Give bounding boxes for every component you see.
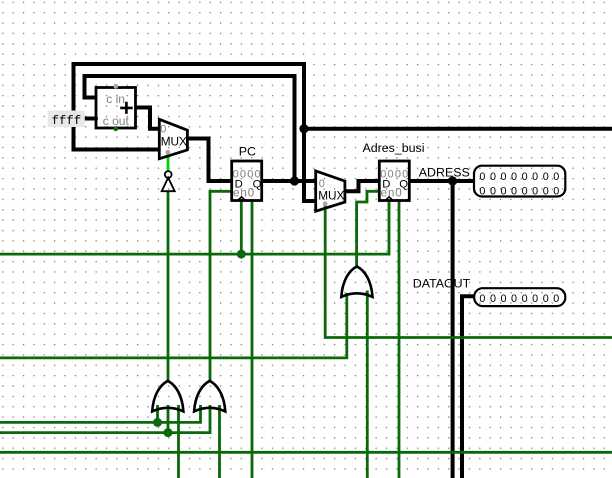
svg-text:en0: en0 [381,187,403,200]
OR gate G2 [194,381,225,412]
MUX M2 select pin [323,201,328,206]
wire bus to MUX M1 input 1 [72,148,160,152]
svg-text:MUX: MUX [318,188,344,202]
adder carry-out pin [113,126,118,131]
node junction on PC Q wire [290,176,299,185]
node junction on bus at y129 [299,124,308,133]
wire long horizontal y433 from left edge up to OR gate G2 middle input [0,405,210,433]
MUX M2 [316,171,345,211]
svg-text:en0: en0 [233,187,255,200]
wire bus register Adres_busi output Q to ADRESS probe [410,179,475,183]
wire bus ADRESS node down to bottom edge [451,181,455,478]
ADRESS probe [419,165,566,197]
wire NOT U1 output down to OR gate G1 output tip [167,191,170,382]
node junction PC clock on y254 wire [237,250,246,259]
wire bus register PC output Q to MUX M2 input 0 [263,179,316,183]
svg-text:Adres_busi: Adres_busi [363,141,425,155]
wire bus MUX M1 output to register PC input D [188,139,232,182]
svg-text:c in: c in [106,92,125,106]
wire bus adder output to MUX M1 input 0 [137,108,160,129]
wire bus east from node at y129 to right edge [304,127,612,131]
wire OR gate G3 right input down to bottom edge [366,291,369,478]
wire bus MUX M2 output to register Adres_busi input D [345,181,379,191]
constant ffff label box [48,111,85,129]
wire bright green MUX M1 select to NOT U1 [167,153,170,171]
node junction on y422 wire [153,418,162,427]
adder carry-in pin [113,84,118,89]
node junction on y433 wire [164,428,173,437]
wire long horizontal y452 across full width [0,451,612,454]
wire bus inner feedback loop to adder input A [85,76,295,181]
svg-text:ADRESS: ADRESS [419,165,470,179]
svg-text:DATAOUT: DATAOUT [413,277,471,291]
svg-text:ffff: ffff [52,114,82,128]
wire long horizontal y254 from left edge up to Adres_busi clock [0,202,389,255]
svg-text:c out: c out [103,114,130,128]
DATAOUT probe [413,277,566,307]
wire bus from bottom edge up to DATAOUT probe [462,296,475,478]
svg-text:00000000: 00000000 [479,171,563,183]
wire register Adres_busi second pin down to bottom edge [398,202,401,478]
wire bus outer feedback loop top [74,64,316,201]
register Adres_busi [363,141,425,201]
wire OR gate G3 output to register Adres_busi enable [357,191,379,266]
adder U2 [96,88,136,129]
wire register PC clock down to node on long wire [240,202,243,255]
MUX M1 select pin [165,150,170,155]
wire OR gate G1 middle input stub [167,405,170,433]
wire register PC enable to OR gate G2 output tip [210,191,231,381]
wire long horizontal y358 from left edge to OR gate G3 left input [0,293,347,358]
node junction at ADRESS [448,176,457,185]
wire OR gate G1 right input down to bottom edge [177,405,180,478]
svg-text:MUX: MUX [161,135,187,149]
wire OR gate G2 right input down to bottom edge [218,405,221,478]
svg-text:PC: PC [239,145,256,159]
wire long horizontal y422 from left edge up to OR gate G2 left input [0,405,201,422]
wire OR gate G1 left input stub [156,405,159,422]
OR gate G3 [341,266,372,297]
wire bus constant ffff to adder input B [84,117,96,121]
svg-text:0: 0 [160,123,166,135]
svg-text:00000000: 00000000 [479,185,563,197]
NOT U1 [162,171,175,191]
wire register PC second pin down to bottom edge [251,202,254,478]
OR gate G1 [152,381,183,412]
svg-text:00000000: 00000000 [479,293,563,305]
wire MUX M2 select down and east to right edge [325,205,612,338]
register PC [232,145,262,201]
MUX M1 [159,119,187,158]
